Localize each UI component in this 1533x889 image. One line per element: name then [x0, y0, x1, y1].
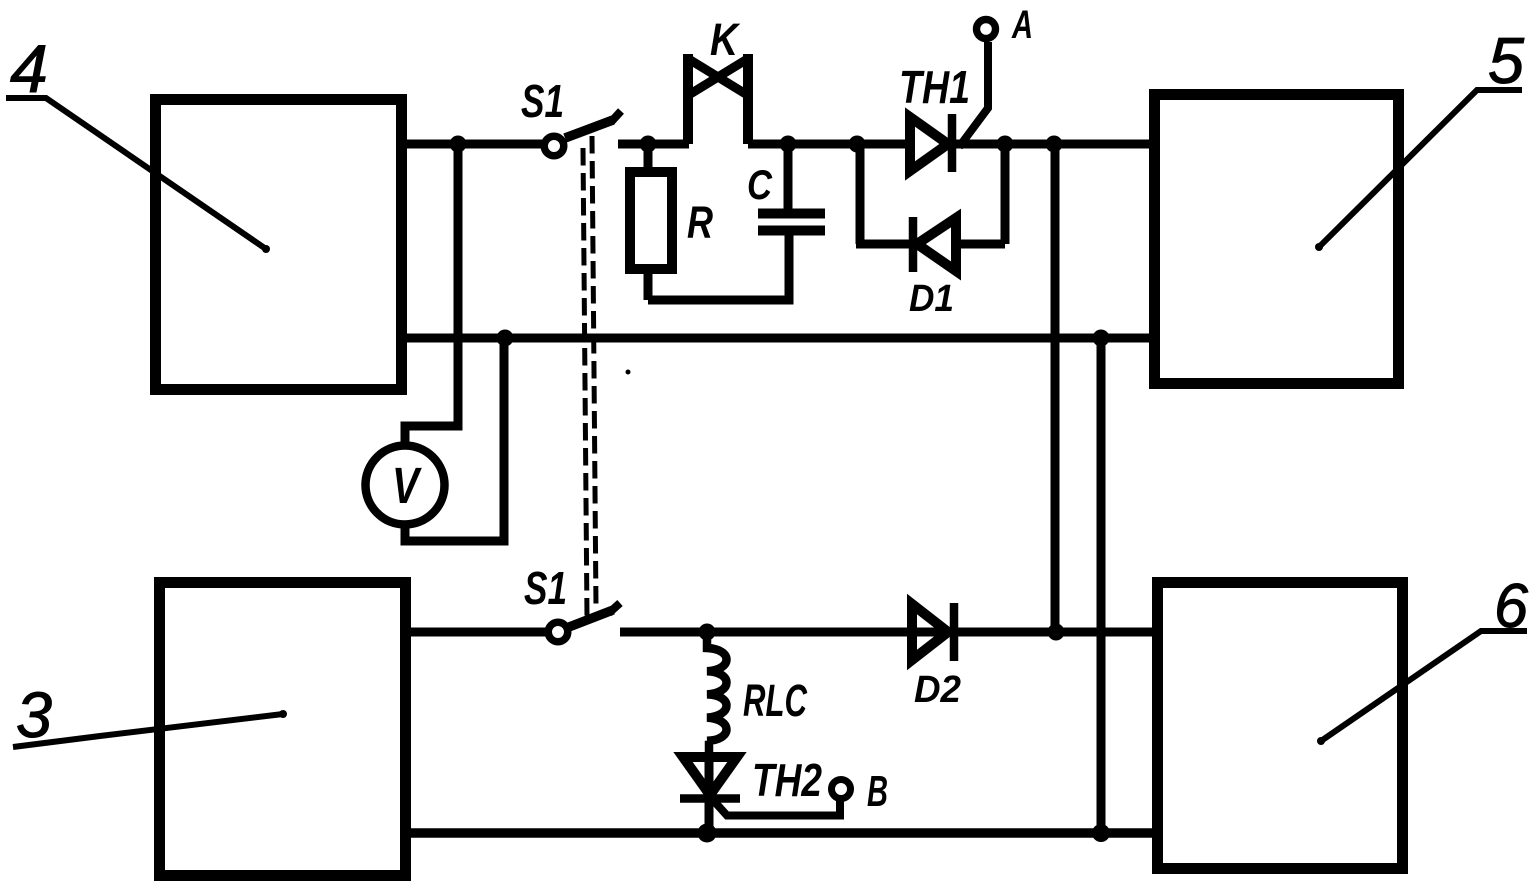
svg-text:C: C	[747, 161, 773, 208]
resistor R	[630, 144, 672, 300]
wire vertical middle rail to bottom rail	[1097, 338, 1106, 833]
inductor RLC	[707, 632, 727, 758]
label 5 leader	[1319, 90, 1522, 247]
diode D1 branch	[856, 144, 1005, 272]
speck	[626, 370, 631, 375]
capacitor C	[758, 144, 825, 231]
wire top rail from TH1 to box 5	[948, 140, 1149, 149]
box 5	[1155, 95, 1399, 384]
svg-text:3: 3	[16, 679, 52, 751]
node junction D2 rail / vertical from top rail	[1048, 624, 1065, 641]
wire R-C bottom connector	[648, 235, 789, 300]
node junction bottom rail / TH2 cathode	[698, 824, 717, 843]
node junction top rail / capacitor C	[780, 136, 797, 153]
svg-text:5: 5	[1488, 24, 1525, 97]
switch S1 (bottom)	[548, 603, 620, 642]
spark gap K	[687, 54, 749, 144]
wire D2 rail from switch to box 6	[620, 628, 1152, 637]
node junction top rail / D1 right branch	[997, 136, 1014, 153]
label 3 leader	[13, 714, 283, 747]
node junction bottom rail / vertical from middle rail	[1092, 824, 1110, 842]
svg-text:6: 6	[1494, 572, 1529, 641]
node junction top rail / vertical to D2 rail	[1046, 136, 1063, 153]
svg-text:D2: D2	[914, 669, 961, 711]
svg-text:R: R	[687, 197, 713, 248]
svg-text:D1: D1	[909, 278, 954, 320]
node junction middle rail / voltmeter branch	[497, 330, 514, 347]
svg-text:V: V	[392, 457, 422, 514]
svg-text:4: 4	[10, 31, 48, 107]
wire box 3 to switch S1 (bottom)	[411, 628, 546, 637]
svg-text:A: A	[1011, 3, 1033, 47]
node junction top rail / D1 left branch	[849, 136, 866, 153]
wire top rail from K to thyristor TH1	[748, 140, 910, 149]
node junction top rail / resistor R	[640, 136, 657, 153]
node junction D2 rail / RLC branch	[699, 624, 716, 641]
svg-text:B: B	[867, 767, 888, 816]
thyristor TH1	[910, 114, 952, 172]
svg-text:TH1: TH1	[899, 61, 970, 113]
gate wire of TH1 to terminal A	[959, 42, 988, 147]
box 6	[1158, 583, 1403, 869]
label 6 leader	[1321, 631, 1527, 741]
node junction top rail / voltmeter branch	[450, 136, 467, 153]
node junction middle rail / vertical to bottom rail	[1093, 330, 1110, 347]
thyristor TH2	[680, 756, 740, 837]
terminal B	[832, 780, 851, 799]
wire top rail from box 4 to switch S1	[407, 140, 542, 149]
diode D2	[912, 603, 954, 661]
svg-text:TH2: TH2	[752, 754, 822, 806]
svg-text:RLC: RLC	[743, 675, 808, 726]
wire voltmeter bottom branch	[405, 338, 504, 541]
dashed mechanical link of S1	[583, 136, 596, 618]
wire voltmeter top branch	[405, 144, 458, 445]
wire bottom rail box 3 to box 6	[411, 828, 1152, 838]
terminal A	[977, 20, 996, 39]
svg-text:S1: S1	[521, 75, 564, 127]
svg-text:K: K	[710, 14, 741, 65]
svg-text:S1: S1	[524, 562, 567, 614]
gate wire of TH2 to terminal B	[713, 799, 840, 816]
wire vertical top rail to D2 rail	[1051, 144, 1060, 632]
switch S1 (top)	[544, 111, 621, 156]
wire top rail from switch to spark gap K	[618, 140, 689, 149]
voltmeter V	[366, 446, 445, 525]
box 4	[156, 100, 402, 390]
label 4 leader	[6, 98, 266, 249]
box 3	[160, 583, 406, 876]
wire middle rail box 4 to box 5	[407, 334, 1150, 343]
